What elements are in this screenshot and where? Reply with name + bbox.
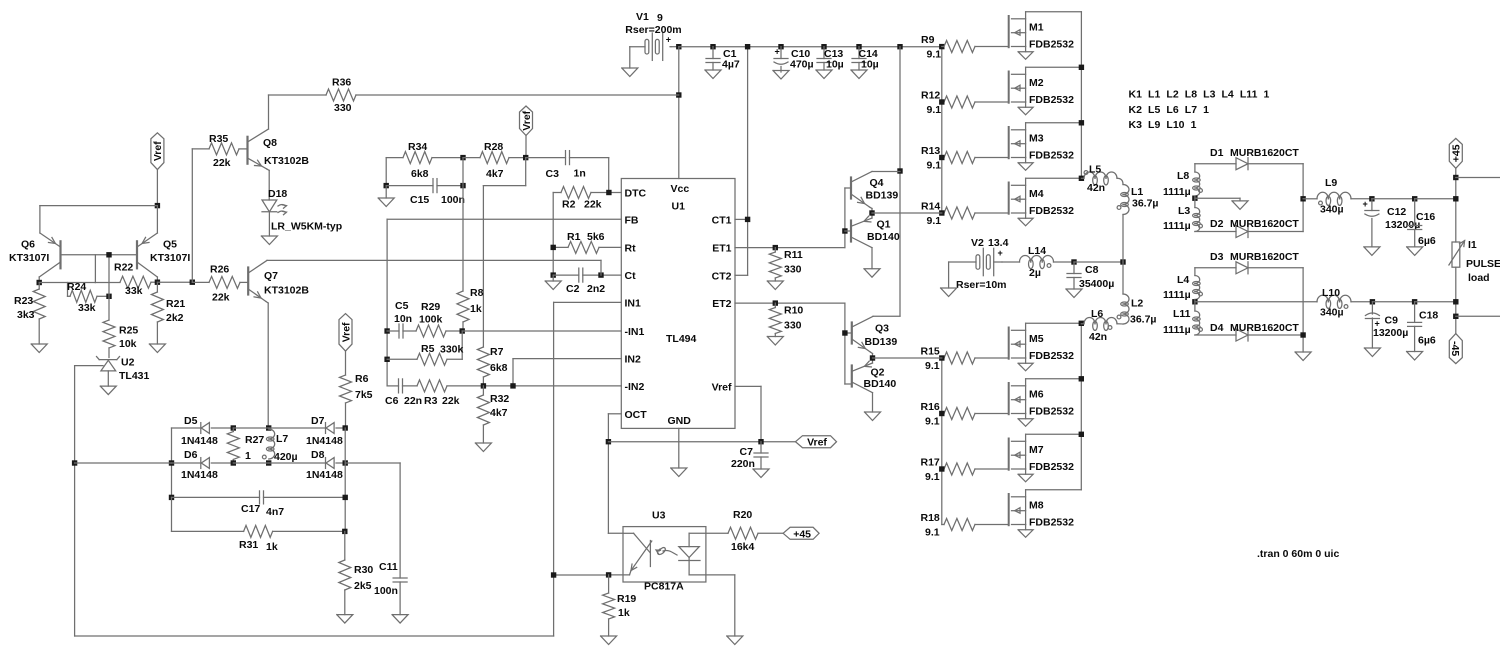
- wire D3 row: [1195, 267, 1236, 269]
- svg-text:Q8: Q8: [263, 137, 277, 149]
- wire U3 row link: [554, 574, 609, 576]
- resistor R32: [477, 386, 509, 443]
- svg-text:BD140: BD140: [867, 231, 900, 243]
- node R10 top: [773, 300, 778, 305]
- svg-text:2k5: 2k5: [354, 580, 372, 592]
- inductor L6: [1081, 308, 1117, 343]
- wire CT rail: [747, 47, 749, 276]
- ground: [1066, 289, 1082, 298]
- svg-text:1k: 1k: [618, 607, 630, 619]
- node C5 left: [384, 328, 389, 333]
- svg-text:9: 9: [657, 12, 663, 24]
- ground: [851, 70, 867, 79]
- wire D8-C11 jog: [345, 463, 400, 578]
- svg-text:R30: R30: [354, 564, 373, 576]
- resistor R1: [553, 231, 621, 253]
- wire Q2 base lead: [845, 383, 852, 385]
- U1 inner labels: [666, 183, 732, 427]
- svg-text:470µ: 470µ: [790, 59, 814, 71]
- svg-text:KT3102B: KT3102B: [264, 155, 309, 167]
- net flag +45: [1449, 138, 1462, 168]
- svg-text:100k: 100k: [419, 314, 443, 326]
- wire D8 row: [269, 462, 326, 464]
- node IN1-U3: [551, 572, 556, 577]
- svg-text:Rt: Rt: [625, 242, 637, 254]
- svg-text:42n: 42n: [1089, 331, 1107, 343]
- U1 left pin labels: [625, 188, 648, 421]
- text K statements: [1129, 89, 1270, 132]
- node R19 top: [606, 572, 611, 577]
- diode D2 MURB1620CT: [1210, 218, 1303, 238]
- svg-text:Q3: Q3: [875, 323, 889, 335]
- inductor L9: [1303, 177, 1372, 216]
- wire +rail: [1415, 198, 1456, 200]
- voltage source V2: [949, 237, 1009, 291]
- svg-text:42n: 42n: [1087, 182, 1105, 194]
- node base tee: [106, 252, 111, 257]
- wire C3 corner: [608, 158, 610, 193]
- svg-text:R16: R16: [921, 401, 940, 413]
- svg-text:C17: C17: [241, 503, 260, 515]
- node C17 right: [343, 495, 348, 500]
- svg-text:TL494: TL494: [666, 333, 697, 345]
- svg-text:U1: U1: [672, 201, 686, 213]
- svg-text:10n: 10n: [394, 313, 412, 325]
- wire: [1455, 168, 1457, 242]
- node Rt: [551, 245, 556, 250]
- svg-text:9.1: 9.1: [927, 160, 942, 172]
- svg-text:16k4: 16k4: [731, 541, 755, 553]
- svg-text:V2: V2: [971, 237, 984, 249]
- node C7 top: [758, 439, 763, 444]
- svg-text:220n: 220n: [731, 458, 755, 470]
- svg-text:Vref: Vref: [712, 381, 732, 393]
- svg-text:R11: R11: [784, 249, 803, 261]
- svg-text:U3: U3: [652, 510, 666, 522]
- node D7 right: [343, 425, 348, 430]
- svg-text:5k6: 5k6: [587, 231, 605, 243]
- ground: [671, 468, 687, 477]
- ground: [1407, 247, 1423, 256]
- wire -IN1 row: [462, 330, 621, 332]
- svg-text:L6: L6: [1091, 308, 1103, 320]
- svg-text:L8: L8: [1177, 170, 1189, 182]
- capacitor C3: [546, 151, 609, 180]
- node R9 tee: [939, 44, 944, 49]
- wire base drop: [108, 255, 110, 320]
- diode U2 TL431: [97, 357, 150, 387]
- ground: [1407, 352, 1423, 361]
- node L1-L2: [1120, 259, 1125, 264]
- svg-text:KT3102B: KT3102B: [264, 285, 309, 297]
- svg-text:M3: M3: [1029, 133, 1044, 145]
- svg-text:R27: R27: [245, 434, 264, 446]
- node Vref-R28: [523, 155, 528, 160]
- svg-text:FDB2532: FDB2532: [1029, 150, 1074, 162]
- svg-text:100n: 100n: [441, 194, 465, 206]
- svg-text:330: 330: [784, 264, 802, 276]
- wire Q7 collector to Ct: [267, 260, 601, 275]
- wire +9V rail: [679, 46, 942, 48]
- svg-text:10k: 10k: [119, 338, 137, 350]
- resistor R26: [192, 264, 248, 304]
- svg-text:R15: R15: [921, 346, 940, 358]
- svg-text:D3: D3: [1210, 251, 1224, 263]
- wire R20 lead: [706, 532, 728, 534]
- net flag +45 opto: [783, 527, 819, 540]
- svg-text:1N4148: 1N4148: [181, 469, 218, 481]
- diode D18 LED: [262, 188, 342, 236]
- svg-text:R34: R34: [408, 141, 427, 153]
- svg-text:R7: R7: [490, 346, 504, 358]
- svg-text:IN1: IN1: [625, 297, 642, 309]
- svg-text:1111µ: 1111µ: [1163, 220, 1191, 232]
- svg-text:U2: U2: [121, 357, 135, 369]
- svg-text:C18: C18: [1419, 310, 1438, 322]
- svg-text:D1: D1: [1210, 147, 1224, 159]
- svg-text:R21: R21: [166, 298, 185, 310]
- wire D1-D2 link: [1302, 164, 1304, 232]
- node R27 bottom: [231, 460, 236, 465]
- node ref-D6 row: [72, 460, 77, 465]
- node L7 bottom: [266, 460, 271, 465]
- wire U2 ref: [75, 366, 103, 636]
- svg-text:22k: 22k: [442, 395, 460, 407]
- svg-text:1111µ: 1111µ: [1163, 289, 1191, 301]
- ground: [149, 344, 165, 353]
- ground: [31, 344, 47, 353]
- svg-text:PULSE: PULSE: [1466, 258, 1500, 270]
- capacitor C11: [374, 561, 407, 615]
- inductor L3: [1163, 205, 1202, 232]
- net flag Vref right: [796, 436, 837, 449]
- wire R-bank bus bottom: [941, 358, 943, 525]
- svg-text:R3: R3: [424, 395, 438, 407]
- ground: [727, 636, 743, 645]
- transistor Q1 BD140: [851, 213, 900, 269]
- node R27 top: [231, 425, 236, 430]
- wire D1 row: [1195, 163, 1236, 165]
- resistor R15: [921, 346, 1009, 373]
- transistor Q6 KT3107I: [9, 233, 61, 283]
- capacitor C5: [387, 300, 416, 338]
- svg-text:D2: D2: [1210, 218, 1224, 230]
- svg-text:R36: R36: [332, 77, 351, 89]
- svg-text:C15: C15: [410, 194, 429, 206]
- wire GND lead: [678, 428, 680, 468]
- node +45 tap: [1453, 175, 1458, 180]
- wire Vref pin: [735, 386, 761, 441]
- svg-text:R12: R12: [921, 90, 940, 102]
- inductor L4: [1163, 268, 1202, 301]
- wire R34 left: [385, 158, 387, 186]
- node C16 top: [1412, 196, 1417, 201]
- wire Q6-Q5 base: [61, 254, 138, 256]
- ground: [1364, 348, 1380, 357]
- wire bottom rail: [75, 635, 554, 637]
- svg-text:R26: R26: [210, 264, 229, 276]
- ground: [1232, 201, 1248, 210]
- capacitor C7: [731, 442, 768, 470]
- svg-text:FDB2532: FDB2532: [1029, 94, 1074, 106]
- node R28 left: [460, 155, 465, 160]
- wire R-bank bus top: [941, 47, 943, 214]
- svg-text:K3 L9 L10 1: K3 L9 L10 1: [1129, 119, 1197, 131]
- svg-text:7k5: 7k5: [355, 389, 373, 401]
- node D8 right: [343, 460, 348, 465]
- svg-text:M6: M6: [1029, 389, 1044, 401]
- node Vref rail: [155, 203, 160, 208]
- resistor R6: [340, 351, 373, 428]
- svg-text:1k: 1k: [470, 303, 482, 315]
- wire Vref stem: [156, 170, 158, 206]
- svg-text:I1: I1: [1468, 239, 1477, 251]
- op-amp U1 TL494 box: [621, 179, 735, 429]
- svg-text:22k: 22k: [584, 199, 602, 211]
- transistor M4: [1009, 176, 1084, 226]
- wire: [552, 275, 554, 281]
- svg-text:1N4148: 1N4148: [181, 435, 218, 447]
- svg-text:3k3: 3k3: [17, 309, 35, 321]
- svg-text:FB: FB: [625, 214, 639, 226]
- ground: [767, 281, 783, 290]
- svg-text:BD139: BD139: [865, 336, 898, 348]
- svg-text:CT1: CT1: [712, 214, 732, 226]
- svg-text:BD140: BD140: [864, 378, 897, 390]
- svg-text:2µ: 2µ: [1029, 267, 1041, 279]
- wire Q3 base: [845, 303, 852, 384]
- wire MOSFET drain bus top: [1080, 12, 1082, 179]
- resistor R13: [921, 145, 1009, 172]
- svg-text:R10: R10: [784, 305, 803, 317]
- svg-text:V1: V1: [636, 11, 649, 23]
- svg-text:R18: R18: [921, 512, 940, 524]
- svg-text:340µ: 340µ: [1320, 204, 1344, 216]
- svg-text:ET1: ET1: [712, 243, 731, 255]
- wire L2-L6: [1117, 323, 1123, 325]
- svg-text:M4: M4: [1029, 188, 1044, 200]
- svg-text:D18: D18: [268, 188, 287, 200]
- svg-text:R31: R31: [239, 539, 258, 551]
- wire right stub top: [1456, 177, 1500, 179]
- resistor R29: [416, 301, 462, 337]
- svg-text:9.1: 9.1: [925, 360, 940, 372]
- wire: [1455, 267, 1457, 333]
- svg-text:TL431: TL431: [119, 370, 150, 382]
- transistor M1: [1009, 12, 1082, 60]
- svg-text:13.4: 13.4: [988, 237, 1009, 249]
- svg-text:Vref: Vref: [521, 110, 533, 130]
- node R2-DTC: [606, 190, 611, 195]
- resistor R9: [921, 34, 1009, 61]
- svg-text:-IN2: -IN2: [625, 381, 645, 393]
- svg-text:+: +: [1363, 199, 1368, 209]
- inductor L5: [1081, 164, 1117, 195]
- ground: [864, 269, 880, 278]
- wire D2 row: [1195, 231, 1236, 233]
- wire Q6 col row: [39, 255, 120, 283]
- ground: [1364, 247, 1380, 256]
- node Q3 base: [842, 330, 847, 335]
- svg-text:R20: R20: [733, 509, 752, 521]
- wire R15 row: [873, 357, 942, 359]
- svg-text:1: 1: [245, 450, 251, 462]
- wire FB drop: [462, 158, 464, 291]
- svg-text:35400µ: 35400µ: [1079, 278, 1114, 290]
- resistor R23: [14, 283, 45, 345]
- diode D4 MURB1620CT: [1210, 322, 1303, 341]
- svg-text:MURB1620CT: MURB1620CT: [1230, 147, 1299, 159]
- transistor Q3 BD139: [852, 316, 900, 358]
- node sec2 centertap: [1192, 299, 1197, 311]
- wire centertap gnd: [1195, 198, 1240, 201]
- svg-text:L1: L1: [1131, 186, 1143, 198]
- wire R14 row: [872, 212, 942, 214]
- node rail-drop: [897, 44, 902, 49]
- ground: [1295, 352, 1311, 361]
- node Ct right: [598, 272, 603, 277]
- wire Vref row: [608, 441, 795, 443]
- svg-text:R9: R9: [921, 34, 935, 46]
- resistor R16: [921, 401, 1009, 428]
- svg-text:FDB2532: FDB2532: [1029, 205, 1074, 217]
- resistor R11: [769, 248, 803, 281]
- svg-text:1N4148: 1N4148: [306, 435, 343, 447]
- wire IN2 link: [513, 359, 621, 386]
- node C8 top: [1071, 259, 1076, 264]
- capacitor C17: [241, 491, 345, 518]
- svg-text:R25: R25: [119, 325, 138, 337]
- svg-text:C3: C3: [546, 168, 560, 180]
- svg-text:L11: L11: [1173, 308, 1191, 320]
- svg-text:+: +: [775, 47, 780, 57]
- svg-text:load: load: [1468, 272, 1490, 284]
- node Ct left: [551, 272, 556, 277]
- capacitor C10: [774, 44, 814, 72]
- svg-text:9.1: 9.1: [927, 215, 942, 227]
- current source I1: [1449, 239, 1500, 284]
- ground: [705, 70, 721, 79]
- svg-text:420µ: 420µ: [274, 451, 298, 463]
- node CT1: [745, 217, 750, 222]
- svg-text:330k: 330k: [440, 344, 464, 356]
- svg-text:R5: R5: [421, 343, 435, 355]
- node R11 top: [773, 245, 778, 250]
- svg-text:4µ7: 4µ7: [722, 59, 740, 71]
- svg-text:CT2: CT2: [712, 270, 732, 282]
- node OCT-Vref: [606, 439, 611, 444]
- svg-text:L5: L5: [1089, 164, 1101, 176]
- svg-text:4k7: 4k7: [486, 168, 504, 180]
- text .tran directive: [1257, 548, 1339, 560]
- capacitor C9: [1365, 302, 1408, 348]
- wire: [233, 427, 268, 429]
- wire: [157, 281, 192, 283]
- svg-text:M8: M8: [1029, 500, 1044, 512]
- wire R31 row left: [172, 497, 244, 531]
- svg-text:Q1: Q1: [877, 219, 891, 231]
- opto LED: [623, 533, 677, 575]
- node R24-R25: [106, 294, 111, 299]
- svg-text:MURB1620CT: MURB1620CT: [1230, 322, 1299, 334]
- wire FB row: [387, 218, 621, 220]
- wire D5 row left: [172, 427, 201, 429]
- wire Q1 base lead: [845, 230, 851, 232]
- resistor R7: [477, 346, 507, 386]
- resistor R10: [769, 303, 803, 336]
- net flag Vref mid: [339, 314, 352, 352]
- node 9V rail: [676, 44, 681, 49]
- wire: [671, 46, 679, 48]
- ground: [378, 198, 394, 207]
- ground: [622, 68, 638, 77]
- node -rail: [1453, 299, 1458, 304]
- svg-text:1n: 1n: [574, 168, 586, 180]
- svg-text:R28: R28: [484, 141, 503, 153]
- transistor M8: [1009, 490, 1082, 538]
- svg-text:MURB1620CT: MURB1620CT: [1230, 251, 1299, 263]
- resistor R18: [921, 512, 1009, 539]
- wire: [233, 462, 268, 464]
- svg-text:36.7µ: 36.7µ: [1132, 198, 1159, 210]
- wire: [629, 47, 631, 68]
- svg-text:340µ: 340µ: [1320, 307, 1344, 319]
- node -IN1: [460, 328, 465, 333]
- svg-text:L9: L9: [1325, 177, 1337, 189]
- resistor R12: [921, 90, 1009, 117]
- svg-text:4n7: 4n7: [266, 506, 284, 518]
- capacitor C13: [817, 44, 844, 71]
- node R5 left: [384, 357, 389, 362]
- svg-text:KT3107I: KT3107I: [9, 252, 49, 264]
- resistor R19: [603, 575, 637, 636]
- capacitor C15: [386, 179, 465, 206]
- svg-text:OCT: OCT: [625, 409, 648, 421]
- svg-text:L14: L14: [1028, 245, 1046, 257]
- svg-text:9.1: 9.1: [925, 416, 940, 428]
- wire rail drop x900: [899, 47, 901, 316]
- diode D8 1N4148: [306, 449, 345, 481]
- resistor R35: [192, 133, 247, 169]
- diode D7 1N4148: [306, 415, 345, 447]
- wire: [1372, 198, 1415, 200]
- inductor L1: [1117, 185, 1158, 263]
- opto transistor: [679, 533, 706, 575]
- svg-text:L10: L10: [1322, 287, 1340, 299]
- ground: [816, 70, 832, 79]
- node C17 left: [169, 495, 174, 500]
- svg-text:1111µ: 1111µ: [1163, 186, 1191, 198]
- svg-text:1111µ: 1111µ: [1163, 324, 1191, 336]
- svg-text:R22: R22: [114, 262, 133, 274]
- diode D5 1N4148: [181, 415, 233, 447]
- svg-text:D7: D7: [311, 415, 325, 427]
- ground: [545, 281, 561, 290]
- resistor R30: [339, 531, 374, 614]
- wire U3 emitter out: [706, 575, 735, 636]
- wire D5-D6 left link: [171, 428, 173, 497]
- svg-text:6k8: 6k8: [411, 168, 429, 180]
- svg-text:9.1: 9.1: [927, 104, 942, 116]
- wire ET1 row: [735, 247, 845, 249]
- transistor M3: [1009, 120, 1084, 170]
- node C9 top: [1370, 299, 1375, 304]
- ground: [753, 469, 769, 478]
- node L7 top: [266, 425, 271, 430]
- node D6 left: [169, 460, 174, 465]
- svg-text:L4: L4: [1177, 274, 1189, 286]
- svg-text:1N4148: 1N4148: [306, 469, 343, 481]
